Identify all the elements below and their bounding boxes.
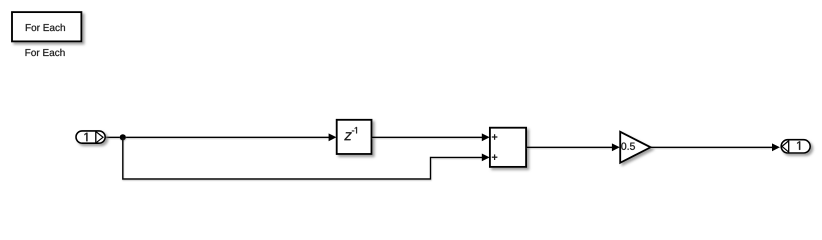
gain value 0.5 xyxy=(621,143,635,150)
inport block 1 xyxy=(76,131,105,143)
inport divider line xyxy=(95,131,97,143)
unit delay superscript 1 xyxy=(355,127,357,133)
wire: sum to gain xyxy=(526,146,612,148)
outport divider line xyxy=(788,140,790,153)
junction node dot xyxy=(120,134,126,140)
arrowhead into sum lower input xyxy=(482,154,490,162)
sum block xyxy=(490,128,526,167)
sum plus sign lower xyxy=(492,154,498,160)
sum plus sign upper xyxy=(492,134,498,140)
unit delay block xyxy=(337,120,372,154)
unit delay superscript minus xyxy=(352,130,354,133)
For Each subsystem block xyxy=(12,12,81,41)
For Each block name label xyxy=(26,49,65,56)
arrowhead into sum upper input xyxy=(482,133,490,141)
arrowhead into unit delay xyxy=(329,133,337,141)
arrowhead into gain xyxy=(612,143,620,151)
inport chevron xyxy=(96,132,103,143)
outport number 1 xyxy=(797,141,800,149)
unit delay label z xyxy=(344,132,351,140)
wire: gain to outport xyxy=(651,146,773,148)
wire: feedback branch down right up into sum xyxy=(123,137,483,179)
arrowhead into outport xyxy=(772,143,780,151)
wire: unit delay to sum xyxy=(372,136,483,138)
outport chevron xyxy=(782,141,788,152)
gain block triangle xyxy=(620,132,650,163)
wire: inport to unit delay xyxy=(105,136,329,138)
outport block 1 xyxy=(781,140,810,153)
For Each block title text xyxy=(26,24,65,31)
inport number 1 xyxy=(84,133,87,141)
